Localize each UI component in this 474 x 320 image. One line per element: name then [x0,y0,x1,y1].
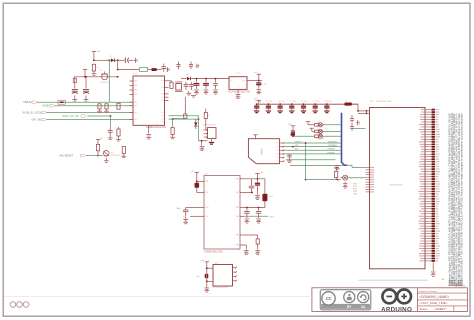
ic U1 right pins upper [165,81,169,101]
resistor R L [335,171,338,177]
power jack X1 body [248,139,279,164]
power +5V led row2 [310,128,314,131]
diode D2 [111,59,114,63]
svg-text:PB3: PB3 [236,179,240,181]
svg-text:P6: P6 [161,87,163,89]
wire IC4 gndpin [244,244,246,246]
svg-text:DAT_N0: DAT_N0 [32,119,42,122]
svg-text:RS3: RS3 [205,192,209,194]
diode D3 CD1206 [194,123,198,126]
svg-text:10: 10 [184,112,186,114]
svg-text:+5V: +5V [288,124,292,126]
wire green jbus1 [284,142,341,144]
ground filt [166,67,169,72]
resistor R below x118 [117,129,120,136]
svg-text:FDN340P: FDN340P [111,155,120,157]
ground C r3a [245,219,250,221]
ground x202 [201,141,203,146]
wire green y115 [169,115,199,117]
net flag USB-B wire [37,101,134,103]
cc plate [320,290,371,310]
title row line2 [417,299,467,301]
title row line1 [417,292,467,294]
capacitor PC2 [205,79,207,83]
svg-text:XX0: XX0 [134,90,138,92]
capacitor C pol top [118,59,125,61]
resistor R x172 [171,128,174,135]
ground R x94 [92,71,97,75]
cc grey bar [321,304,370,309]
ground C jack [287,160,292,163]
wire L led [338,179,341,181]
svg-text:C6 100n: C6 100n [278,101,285,103]
svg-text:1k: 1k [97,67,99,69]
resistor RN3 [117,103,120,109]
ground tant1 [72,96,77,102]
ground C reg3 [213,90,218,92]
svg-text:P3: P3 [161,94,163,96]
svg-text:47u: 47u [264,84,267,86]
led TX [318,129,322,133]
cc logo circle [322,292,335,305]
wire green y159 [286,159,336,161]
svg-text:C5 100n: C5 100n [266,101,273,103]
frame circle 2 [17,302,23,308]
svg-text:P7: P7 [161,97,163,99]
svg-text:54 46 38 22: 54 46 38 22 [455,286,466,288]
svg-text:P2: P2 [277,146,279,148]
capacitor C xt2 [189,85,194,87]
power +5V rail [257,100,261,103]
svg-text:PB4: PB4 [236,235,240,237]
svg-text:ARDUINO: ARDUINO [381,307,412,314]
svg-text:16M: 16M [269,196,273,198]
power +5V reg out [257,74,261,77]
ground tops [196,64,199,69]
svg-text:PB0: PB0 [236,245,240,247]
svg-text:100n: 100n [177,208,181,210]
varistor Z1 [98,104,101,109]
ground C 47u [256,89,261,92]
wire h y60 [94,59,109,61]
wire green y167 [290,164,344,166]
ground xtal IC3 [357,120,360,125]
wire green vertical x110 [110,116,112,128]
svg-text:XX4: XX4 [134,112,138,114]
net flag XUSB wire [47,112,134,114]
ground C r3b [256,219,261,221]
cc sa circle [358,292,369,303]
svg-text:GND: GND [295,145,300,147]
ground IC4 r5 [255,251,260,253]
svg-text:XUSB_ID_UC5V: XUSB_ID_UC5V [23,112,42,115]
power +5V led row1 [306,122,310,125]
ground C IC4 left [183,217,188,222]
ground regulator [237,89,239,93]
capacitor C r3b [258,208,260,212]
ground tant2 [84,96,89,102]
transistor T1 FDN340P [102,74,108,80]
svg-text:P1: P1 [161,100,163,102]
capacitor C 100n IC6 [206,274,208,278]
led row3 resistor [315,135,319,138]
svg-text:L2: L2 [345,100,347,102]
net flag D-D+ wire [47,119,134,121]
faint copyright line [358,280,428,281]
wire green v x109 [108,60,110,102]
svg-text:ATMEGA8U2-MU: ATMEGA8U2-MU [204,250,223,253]
svg-text:XX3: XX3 [134,102,138,104]
svg-text:SA: SA [361,305,366,309]
svg-text:XX4: XX4 [134,94,138,96]
resistor RN4 dark [291,133,296,136]
wire xtal1 [169,80,172,82]
ic IC3 right pins [418,109,440,262]
svg-text:C7 100n: C7 100n [289,101,296,103]
svg-text:YL: YL [351,178,353,180]
resonator Q1 16MHz [264,179,266,194]
capacitor PC tant1 [72,90,78,92]
ic IC6 left pins [209,268,213,281]
arduino logo plus [401,296,407,298]
svg-text:Reference Designs: Reference Designs [419,290,437,293]
wire green v x305 [305,143,307,180]
svg-text:PWRIN1: PWRIN1 [328,149,335,151]
led L3 [318,134,322,138]
capacitor C reg3 [215,79,217,83]
ic U1 gnd stub [148,125,150,133]
ic IC3 gnd stub [432,263,434,272]
led row1 resistor [315,124,319,127]
svg-text:P2: P2 [161,119,163,121]
frame circle 3 [23,302,29,308]
capacitor xtal IC3 b [350,127,354,129]
svg-text:RS6: RS6 [205,216,209,218]
fuse F1 [58,100,65,104]
svg-text:P4: P4 [277,154,279,156]
arduino logo ring right [397,290,411,304]
ground U1 [146,135,151,137]
svg-text:+5V: +5V [260,172,264,174]
svg-text:NCP1117ST50T3G: NCP1117ST50T3G [229,91,250,94]
capacitor C top1 [177,65,181,67]
title block outer [312,288,468,312]
svg-text:PWRIN: PWRIN [262,148,264,155]
svg-text:THERMAL0: THERMAL0 [328,140,338,143]
svg-text:C8 100n: C8 100n [301,101,308,103]
svg-text:CD1206-S01575: CD1206-S01575 [202,125,216,127]
arduino logo minus [387,296,393,298]
led L yellow [343,175,348,180]
capacitor C IC4 left [186,207,200,209]
dense text block [449,280,463,286]
svg-text:RS6: RS6 [205,181,209,183]
wire rail stem [258,102,260,105]
svg-text:RN4D 1k: RN4D 1k [317,139,325,141]
frame inner bottom line [4,295,312,297]
svg-text:XX6: XX6 [134,105,138,107]
resistor R 10k mid [184,97,186,114]
svg-text:XVCC_UC_5V: XVCC_UC_5V [62,115,79,118]
svg-text:PB3: PB3 [236,192,240,194]
svg-text:PB4: PB4 [236,207,240,209]
ground bus [335,166,340,168]
resistor R IC4 [256,239,259,244]
svg-text:C10 100n: C10 100n [324,101,332,103]
capacitor row 100n [254,101,332,113]
svg-text:GND: GND [356,125,361,127]
resistor R x94 [92,64,95,71]
wire +5V rail [256,103,359,105]
svg-text:LMV358IDGKR: LMV358IDGKR [212,286,228,288]
ic IC4 pins [200,179,244,245]
wire green y119 [169,118,199,120]
varistor V x74 [73,78,76,82]
svg-text:CC: CC [326,296,332,301]
wire v pwr [93,55,95,61]
frame circle 1 [10,302,16,308]
resistor R jp2 [205,109,207,113]
capacitor xtal IC3 a [350,119,354,121]
svg-text:P5: P5 [161,122,163,124]
wire IC4 l1 [196,175,198,192]
power +5V T2 cluster [96,140,100,143]
crystal Y1 [176,84,182,91]
ground IC4 gndpin [244,251,249,253]
svg-text:MEGA2560-16AU: MEGA2560-16AU [377,100,393,103]
ic IC3 box [370,108,426,269]
wire T1 rail [84,72,86,77]
arduino logo ring left [382,290,396,304]
wire IC6 v [206,265,208,287]
wire v x117 to y69 [117,60,119,69]
svg-text:C9 100n: C9 100n [313,101,320,103]
ic IC3 left pins [366,110,375,192]
capacitor C jack [287,155,291,157]
wire v x86 caps [85,77,87,89]
ferrite bead dark [151,68,157,71]
ic IC5 regulator box [229,77,247,90]
net flag UGND wire [55,105,134,107]
svg-text:P3: P3 [277,150,279,152]
svg-text:FDN340P: FDN340P [100,82,109,84]
capacitor C filt [161,67,166,69]
power +5V jack [253,135,257,138]
ic IC4 pin names [205,179,239,247]
ground JP2 [209,143,214,145]
transistor T2 [104,151,110,157]
bus blue vertical [342,113,347,165]
wire reset v [97,151,99,156]
led row2 resistor [315,130,319,133]
wire IC4 r1 [244,178,265,180]
svg-text:Sheet:: Sheet: [419,307,428,311]
title row divider [453,306,455,312]
ground xtal [186,91,191,95]
svg-text:P5: P5 [277,157,279,159]
ic IC4 box [204,176,240,250]
resistor R1 10k [195,183,200,188]
led RX [318,123,322,127]
ground cluster1 [108,136,113,140]
wire green bus to IC3 [347,164,352,166]
svg-text:USBVCC: USBVCC [295,141,303,143]
svg-text:XX4: XX4 [134,85,138,87]
wire green jbus2 [284,146,341,148]
wire green y179 [306,179,338,181]
ground Z1 Z2 [97,109,102,113]
resistor R x124 [122,147,125,154]
wire rail to IC3 [352,103,358,105]
ground PC2 [204,90,209,92]
resistor R xtal [170,82,173,88]
ic U1 ATMEGA16U2 box [133,76,165,125]
ground R x124 [121,154,126,158]
capacitor C x252 [251,179,253,186]
varistor Z2 [105,104,108,109]
wire v x75 caps [74,77,76,89]
svg-text:+5V: +5V [97,51,101,53]
svg-text:PW4: PW4 [353,193,357,195]
wire reg in [191,78,229,80]
ic IC6 right pins [233,267,237,282]
wire green jbus4 [284,153,341,155]
ground L led [343,182,348,186]
wire reg out [247,80,262,82]
wire green led3 [293,135,315,137]
ground C IC4 r [255,196,260,198]
resistor R reset [96,144,99,151]
svg-text:PWRIN2: PWRIN2 [328,152,335,154]
wire jp2 [199,140,208,142]
power +5V IC4 r [255,174,259,177]
capacitor C r3a [246,208,248,212]
wire diode M7 in [181,78,187,80]
wire IC4 r5 [244,234,258,236]
ground IC6 [204,287,209,290]
power +UCAP [83,69,87,72]
power +5V top [92,52,96,55]
capacitor C IC4 r [257,179,259,183]
ground cap top right [134,58,137,63]
ground R x172 [170,135,175,139]
power +5V IC6 [205,262,209,265]
title block divider [416,288,418,312]
svg-text:XX2: XX2 [134,119,138,121]
diode D1 M7 [187,77,190,81]
ic U1 pin names [134,81,164,125]
svg-text:+5V: +5V [191,171,195,173]
wire green v x198 [198,116,200,141]
power jack pin names [277,143,279,163]
power jack pins [280,142,285,162]
capacitor PC tant2 [83,90,89,92]
svg-text:P1: P1 [277,143,279,145]
ground T2 [104,158,109,163]
svg-text:THERMAL1: THERMAL1 [328,144,338,147]
svg-text:PB6: PB6 [236,216,240,218]
capacitor C top2 [189,65,193,67]
capacitor PC1 [196,79,198,83]
svg-text:P7: P7 [161,116,163,118]
svg-text:P4: P4 [161,112,163,114]
wire v x172 [172,119,174,127]
svg-text:ATMEGA2560: ATMEGA2560 [390,184,404,187]
wire green jbus3 [284,149,341,151]
wire h y69 [118,69,139,71]
svg-text:ATMEGA16U2-MU: ATMEGA16U2-MU [146,126,166,129]
svg-text:USB-B+: USB-B+ [23,101,33,104]
wire IC4 l4 [190,215,200,217]
power +5V L led [334,168,338,171]
svg-text:RS4: RS4 [205,207,209,209]
svg-text:+5V: +5V [254,72,258,74]
ic U1 left pins [130,81,134,120]
wire IC4 l2 [197,192,200,194]
fuse RN bold [344,103,352,106]
svg-text:UGND: UGND [42,105,50,108]
wire green IC3 y128 [352,128,366,130]
svg-text:+5V: +5V [201,260,205,262]
net flag XVCC wire [88,115,111,117]
ic IC6 box [213,265,233,287]
svg-text:XX0: XX0 [134,81,138,83]
title row line3 [417,305,467,307]
wire IC4 r4 [244,215,268,217]
ferrite L1 [140,68,148,72]
ground PC1 [194,90,199,92]
capacitor row stems [256,103,328,106]
capacitor C 47u out [258,81,260,83]
wire IC4 r2 [244,192,252,194]
wire green L out [348,177,366,179]
capacitor C below x110 [108,131,113,133]
cc by circle [344,292,355,303]
svg-text:MR_RESET: MR_RESET [60,155,74,158]
capacitor C xt1 [184,85,189,87]
svg-text:<DRAWING_NAME>: <DRAWING_NAME> [419,295,449,299]
svg-text:P6: P6 [277,161,279,163]
capacitor C led [291,126,295,129]
svg-text:P8: P8 [161,81,163,83]
wire IC4 r3 [244,207,265,209]
svg-text:<SHEET>: <SHEET> [434,307,447,311]
svg-text:C4 100n: C4 100n [254,101,261,103]
ic IC3 left labels [353,184,357,196]
svg-text:<LAST_SAVE_TIME>: <LAST_SAVE_TIME> [419,301,448,305]
net flag RESET2 wire [86,155,103,157]
connector JP2 [208,128,217,139]
power +5V IC4 [195,172,199,175]
svg-text:1k: 1k [208,115,210,117]
